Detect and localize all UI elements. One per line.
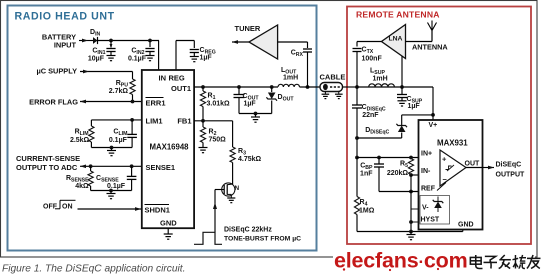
svg-text:ERR1: ERR1 bbox=[146, 99, 166, 108]
svg-text:3.01kΩ: 3.01kΩ bbox=[207, 101, 231, 108]
svg-text:SHDN1: SHDN1 bbox=[145, 206, 170, 215]
svg-text:TONE-BURST FROM µC: TONE-BURST FROM µC bbox=[224, 235, 301, 242]
svg-text:MAX16948: MAX16948 bbox=[150, 143, 190, 152]
svg-text:REG: REG bbox=[169, 74, 185, 83]
svg-text:OUTPUT TO ADC: OUTPUT TO ADC bbox=[16, 163, 78, 172]
svg-text:DiSEqC: DiSEqC bbox=[496, 161, 522, 168]
svg-text:REMOTE ANTENNA: REMOTE ANTENNA bbox=[356, 10, 440, 20]
svg-text:TUNER: TUNER bbox=[235, 24, 261, 33]
svg-text:2.7kΩ: 2.7kΩ bbox=[109, 88, 129, 95]
svg-text:INPUT: INPUT bbox=[54, 41, 77, 50]
svg-text:GND: GND bbox=[160, 218, 177, 227]
svg-text:FB1: FB1 bbox=[177, 117, 191, 126]
svg-text:22nF: 22nF bbox=[362, 112, 379, 119]
svg-text:µC SUPPLY: µC SUPPLY bbox=[36, 67, 77, 76]
svg-text:1MΩ: 1MΩ bbox=[359, 208, 375, 215]
svg-text:1mH: 1mH bbox=[373, 76, 388, 83]
svg-text:RADIO HEAD UNT: RADIO HEAD UNT bbox=[15, 11, 115, 23]
svg-text:100nF: 100nF bbox=[362, 56, 383, 63]
svg-text:REF: REF bbox=[421, 185, 436, 192]
svg-text:ERROR FLAG: ERROR FLAG bbox=[29, 98, 78, 107]
svg-text:Figure 1. The DiSEqC applicati: Figure 1. The DiSEqC application circuit… bbox=[2, 264, 185, 275]
svg-text:ANTENNA: ANTENNA bbox=[412, 43, 448, 52]
svg-text:LIM1: LIM1 bbox=[146, 117, 163, 126]
svg-text:0.1µF: 0.1µF bbox=[107, 183, 126, 190]
svg-text:1nF: 1nF bbox=[360, 171, 373, 178]
svg-text:1µF: 1µF bbox=[408, 103, 421, 110]
svg-text:HYST: HYST bbox=[421, 216, 440, 223]
svg-text:ON: ON bbox=[62, 203, 73, 210]
svg-text:4.75kΩ: 4.75kΩ bbox=[238, 156, 262, 163]
svg-text:OUT1: OUT1 bbox=[171, 84, 191, 93]
svg-text:DiSEqC 22kHz: DiSEqC 22kHz bbox=[224, 226, 272, 233]
svg-text:CABLE: CABLE bbox=[320, 73, 346, 82]
svg-text:1mH: 1mH bbox=[283, 75, 298, 82]
svg-text:0.1µF: 0.1µF bbox=[128, 56, 147, 63]
svg-text:MAX931: MAX931 bbox=[437, 138, 468, 147]
svg-text:OUTPUT: OUTPUT bbox=[496, 171, 526, 178]
svg-text:1µF: 1µF bbox=[200, 55, 213, 62]
svg-text:1µF: 1µF bbox=[244, 101, 257, 108]
svg-text:IN-: IN- bbox=[421, 168, 431, 175]
svg-text:N: N bbox=[235, 185, 240, 192]
svg-text:IN: IN bbox=[159, 74, 167, 83]
svg-text:CURRENT-SENSE: CURRENT-SENSE bbox=[16, 154, 80, 163]
svg-text:IN+: IN+ bbox=[421, 150, 432, 157]
svg-text:220kΩ: 220kΩ bbox=[387, 170, 409, 177]
svg-text:SENSE1: SENSE1 bbox=[146, 163, 176, 172]
svg-text:LNA: LNA bbox=[389, 36, 403, 43]
svg-text:elecfans·com: elecfans·com bbox=[334, 249, 468, 273]
svg-text:0.1µF: 0.1µF bbox=[109, 137, 128, 144]
svg-text:V-: V- bbox=[422, 204, 429, 211]
svg-text:OUT: OUT bbox=[465, 160, 481, 167]
svg-text:750Ω: 750Ω bbox=[209, 137, 227, 144]
svg-text:V+: V+ bbox=[429, 122, 438, 129]
svg-text:4kΩ: 4kΩ bbox=[75, 183, 89, 190]
svg-text:10µF: 10µF bbox=[88, 56, 105, 63]
svg-text:+: + bbox=[442, 155, 447, 164]
svg-text:GND: GND bbox=[458, 222, 474, 229]
svg-text:2.5kΩ: 2.5kΩ bbox=[70, 137, 90, 144]
svg-text:−: − bbox=[443, 175, 448, 184]
